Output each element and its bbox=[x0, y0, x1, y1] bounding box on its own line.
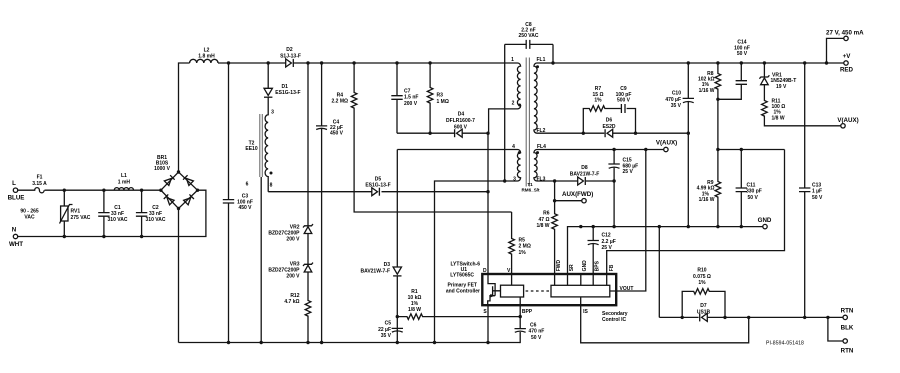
resistor R3 bbox=[427, 61, 449, 133]
svg-text:D6: D6 bbox=[606, 118, 613, 124]
svg-text:470 µF: 470 µF bbox=[665, 97, 681, 103]
svg-text:C7: C7 bbox=[404, 89, 411, 95]
svg-text:R10: R10 bbox=[697, 268, 706, 274]
wire FL1 output rail bbox=[537, 62, 846, 64]
svg-text:C2: C2 bbox=[152, 205, 159, 211]
wire drain line T2 to U1 bbox=[268, 191, 488, 193]
node RTN BLK terminal bbox=[841, 307, 854, 331]
svg-text:FL1: FL1 bbox=[537, 57, 546, 63]
svg-text:SR: SR bbox=[569, 264, 575, 271]
capacitor C11 bbox=[736, 150, 762, 227]
svg-text:L1: L1 bbox=[121, 173, 127, 179]
svg-text:ES2D: ES2D bbox=[602, 124, 615, 130]
svg-text:BZD27C200P: BZD27C200P bbox=[268, 231, 300, 237]
node N input terminal bbox=[9, 227, 23, 248]
capacitor C8 bbox=[503, 22, 555, 183]
svg-text:F1: F1 bbox=[37, 174, 43, 180]
svg-text:DFLR1600-7: DFLR1600-7 bbox=[446, 118, 475, 124]
svg-text:200 V: 200 V bbox=[404, 101, 418, 107]
resistor R1 bbox=[396, 289, 522, 320]
svg-text:1.5 nF: 1.5 nF bbox=[404, 95, 418, 101]
svg-text:200 V: 200 V bbox=[286, 274, 300, 280]
svg-text:1/16 W: 1/16 W bbox=[699, 88, 715, 94]
svg-text:310 VAC: 310 VAC bbox=[108, 217, 128, 223]
svg-text:BLUE: BLUE bbox=[8, 195, 25, 202]
svg-text:2 MΩ: 2 MΩ bbox=[519, 244, 531, 250]
fuse F1 bbox=[18, 174, 47, 193]
svg-text:1/16 W: 1/16 W bbox=[699, 197, 715, 203]
svg-text:3: 3 bbox=[271, 110, 274, 116]
svg-text:3.15 A: 3.15 A bbox=[32, 181, 47, 187]
svg-text:V(AUX): V(AUX) bbox=[656, 140, 677, 147]
transformer T1 primary winding 4-3 bbox=[512, 144, 521, 183]
capacitor C3 bbox=[223, 61, 253, 344]
svg-text:C6: C6 bbox=[530, 322, 537, 328]
svg-text:450 V: 450 V bbox=[238, 205, 252, 211]
svg-text:C1: C1 bbox=[114, 205, 121, 211]
wire secondary GND bus bbox=[568, 227, 766, 274]
svg-text:1/8 W: 1/8 W bbox=[772, 115, 785, 121]
svg-text:D7: D7 bbox=[700, 303, 707, 309]
resistor R12 bbox=[284, 272, 310, 344]
node GND terminal bbox=[763, 224, 767, 228]
svg-text:1/8 W: 1/8 W bbox=[408, 307, 421, 313]
svg-text:C10: C10 bbox=[672, 91, 681, 97]
wire FB pin line bbox=[607, 150, 785, 275]
diode D3 bbox=[360, 150, 401, 276]
varistor RV1 bbox=[60, 189, 91, 239]
capacitor C14 bbox=[718, 40, 750, 100]
wire FL4 V(AUX) line bbox=[537, 149, 664, 151]
capacitor C13 bbox=[799, 61, 823, 319]
svg-text:470 nF: 470 nF bbox=[529, 329, 545, 335]
secondary controller block inside U1 bbox=[551, 285, 610, 297]
svg-text:50 V: 50 V bbox=[531, 335, 542, 341]
wire FL3 line bbox=[537, 180, 614, 182]
diode D7 bbox=[697, 303, 711, 321]
svg-text:1000 V: 1000 V bbox=[154, 166, 171, 172]
node RTN 2 terminal bbox=[826, 316, 854, 355]
resistor R7 and capacitor C9 snubber bbox=[583, 86, 635, 133]
transformer T1 secondary FL1-FL2 bbox=[534, 57, 546, 134]
capacitor C12 BPS column bbox=[588, 227, 616, 274]
svg-text:T1: T1 bbox=[527, 182, 533, 187]
svg-text:RED: RED bbox=[840, 67, 854, 74]
svg-text:50 V: 50 V bbox=[748, 195, 759, 201]
wire D3 to C5 column bbox=[396, 276, 398, 343]
svg-text:50 V: 50 V bbox=[737, 51, 748, 57]
wire RTN line bbox=[659, 316, 843, 318]
resistor R9 bbox=[697, 150, 721, 227]
wire T1 pin4 line bbox=[397, 149, 517, 151]
zener VR1 bbox=[759, 61, 796, 90]
svg-text:C5: C5 bbox=[385, 321, 392, 327]
svg-text:2: 2 bbox=[512, 101, 515, 107]
svg-text:+V: +V bbox=[843, 53, 852, 60]
svg-text:1%: 1% bbox=[411, 301, 419, 307]
svg-text:47 Ω: 47 Ω bbox=[539, 217, 550, 223]
resistor R10 bbox=[681, 268, 727, 319]
svg-text:IS: IS bbox=[583, 309, 588, 315]
svg-text:BAV21W-7-F: BAV21W-7-F bbox=[570, 171, 600, 177]
svg-text:RV1: RV1 bbox=[71, 209, 81, 215]
capacitor C7 bbox=[391, 61, 418, 133]
wire drain column pin2 to U1 bbox=[487, 133, 489, 274]
resistor R6 bbox=[536, 201, 557, 274]
node L input terminal bbox=[8, 180, 39, 221]
svg-text:US1B: US1B bbox=[697, 309, 711, 315]
svg-text:BPS: BPS bbox=[595, 260, 601, 271]
svg-text:35 V: 35 V bbox=[671, 103, 682, 109]
svg-text:L: L bbox=[12, 180, 16, 187]
diode D4 bbox=[446, 112, 475, 138]
svg-text:500 V: 500 V bbox=[617, 98, 631, 104]
capacitor C4 bbox=[316, 61, 344, 344]
svg-text:90 - 265: 90 - 265 bbox=[20, 209, 39, 215]
capacitor C10 bbox=[665, 61, 694, 228]
svg-text:Primary FET: Primary FET bbox=[448, 282, 477, 288]
svg-text:BPP: BPP bbox=[522, 309, 533, 315]
svg-text:BZD27C200P: BZD27C200P bbox=[268, 268, 300, 274]
node AUX(FWD) terminal bbox=[553, 181, 593, 203]
transformer T1 core bbox=[526, 58, 529, 187]
svg-text:ES1G-13-F: ES1G-13-F bbox=[365, 183, 390, 189]
capacitor C15 bbox=[608, 148, 638, 229]
resistor R5 bbox=[509, 212, 531, 274]
svg-text:R6: R6 bbox=[543, 211, 550, 217]
node V(AUX) right terminal bbox=[841, 124, 845, 128]
wire dashed link inside U1 bbox=[526, 290, 550, 292]
zener VR3 bbox=[268, 234, 313, 280]
svg-text:VAC: VAC bbox=[24, 215, 35, 221]
node V(AUX) mid terminal bbox=[664, 147, 668, 151]
svg-text:1 µF: 1 µF bbox=[812, 189, 822, 195]
svg-text:R12: R12 bbox=[290, 293, 299, 299]
wire L line bbox=[45, 189, 161, 191]
svg-text:35 V: 35 V bbox=[381, 333, 392, 339]
svg-text:50 V: 50 V bbox=[812, 195, 823, 201]
wire bridge minus to bottom bus bbox=[178, 209, 180, 343]
svg-text:R3: R3 bbox=[437, 93, 444, 99]
svg-text:S1J-13-F: S1J-13-F bbox=[280, 53, 301, 59]
transformer T1 primary winding 1-2 bbox=[489, 57, 521, 133]
bridge rectifier BR1 bbox=[154, 155, 199, 210]
diode D1 bbox=[264, 61, 301, 97]
svg-text:25 V: 25 V bbox=[623, 169, 634, 175]
wire VOUT to V(AUX) node bbox=[610, 150, 646, 292]
wire bottom primary bus bbox=[179, 342, 521, 344]
wire S pin to bus bbox=[487, 305, 489, 342]
transformer T2 bbox=[245, 97, 274, 344]
wire bridge plus to rail bbox=[179, 63, 190, 172]
svg-text:C13: C13 bbox=[812, 183, 821, 189]
svg-text:FWD: FWD bbox=[556, 260, 562, 272]
inductor L1 bbox=[114, 173, 133, 190]
zener VR2 bbox=[268, 61, 313, 242]
svg-text:310 VAC: 310 VAC bbox=[146, 217, 166, 223]
svg-text:1%: 1% bbox=[594, 98, 602, 104]
resistor R11 bbox=[762, 85, 841, 126]
node 27V tap terminal bbox=[825, 30, 864, 65]
svg-text:RM6_S/t: RM6_S/t bbox=[521, 188, 540, 193]
svg-text:330 pF: 330 pF bbox=[746, 189, 762, 195]
svg-text:VR3: VR3 bbox=[290, 262, 300, 268]
svg-text:D1: D1 bbox=[282, 84, 289, 90]
svg-text:S: S bbox=[483, 309, 487, 315]
resistor R8 bbox=[698, 61, 721, 149]
svg-text:GND: GND bbox=[758, 217, 772, 224]
svg-text:GND: GND bbox=[582, 260, 588, 272]
svg-text:R4: R4 bbox=[337, 93, 344, 99]
svg-text:N: N bbox=[12, 227, 17, 234]
svg-text:19 V: 19 V bbox=[776, 84, 787, 90]
svg-text:1 MΩ: 1 MΩ bbox=[437, 99, 449, 105]
op-amp U1 LYTSwitch-6 IC box bbox=[446, 260, 634, 323]
svg-text:8: 8 bbox=[270, 183, 273, 189]
svg-text:RTN: RTN bbox=[841, 348, 854, 355]
svg-text:200 V: 200 V bbox=[286, 237, 300, 243]
wire N line bbox=[18, 190, 206, 236]
svg-text:22 µF: 22 µF bbox=[378, 327, 391, 333]
inductor L2 bbox=[190, 48, 218, 63]
wire T1 pin3 line bbox=[435, 181, 518, 343]
svg-text:10 kΩ: 10 kΩ bbox=[408, 295, 422, 301]
svg-text:25 V: 25 V bbox=[602, 245, 613, 251]
node +V terminal bbox=[840, 53, 854, 74]
svg-text:C12: C12 bbox=[602, 233, 611, 239]
svg-text:BAV21W-7-F: BAV21W-7-F bbox=[360, 268, 390, 274]
capacitor C5 bbox=[378, 321, 403, 339]
diode D5 bbox=[365, 176, 390, 195]
diode D6 bbox=[602, 118, 615, 138]
svg-text:D4: D4 bbox=[458, 112, 465, 118]
resistor R4 bbox=[331, 61, 511, 212]
svg-text:33 nF: 33 nF bbox=[111, 211, 124, 217]
svg-text:BLK: BLK bbox=[841, 325, 854, 332]
svg-text:R5: R5 bbox=[519, 238, 526, 244]
capacitor C6 BPP column bbox=[515, 305, 545, 342]
svg-text:250 VAC: 250 VAC bbox=[519, 33, 539, 39]
wire clamp line C7 R3 to D4 bbox=[397, 132, 488, 134]
svg-text:ES1G-13-F: ES1G-13-F bbox=[275, 90, 300, 96]
wire FB divider node line bbox=[718, 149, 785, 151]
svg-text:LYT6065C: LYT6065C bbox=[450, 273, 474, 279]
svg-text:EE10: EE10 bbox=[245, 146, 257, 152]
transistor Q primary FET inside U1 bbox=[488, 274, 495, 305]
svg-text:and Controller: and Controller bbox=[446, 288, 480, 294]
svg-text:6: 6 bbox=[246, 182, 249, 188]
svg-text:27 V, 450 mA: 27 V, 450 mA bbox=[826, 30, 864, 37]
svg-text:1%: 1% bbox=[698, 280, 706, 286]
wire GND bus to RTN column bbox=[658, 227, 660, 318]
svg-text:1 mH: 1 mH bbox=[118, 179, 131, 185]
svg-text:275 VAC: 275 VAC bbox=[71, 215, 91, 221]
wire FL2 line bbox=[537, 132, 688, 134]
capacitor C1 bbox=[98, 189, 128, 239]
svg-text:33 nF: 33 nF bbox=[149, 211, 162, 217]
svg-text:0.075 Ω: 0.075 Ω bbox=[693, 274, 711, 280]
svg-text:1: 1 bbox=[511, 57, 514, 63]
wire IS pin route bbox=[581, 305, 749, 343]
svg-text:D8: D8 bbox=[581, 165, 588, 171]
svg-text:VR2: VR2 bbox=[290, 225, 300, 231]
diode D2 bbox=[280, 47, 301, 67]
capacitor C2 bbox=[136, 189, 166, 239]
svg-text:Secondary: Secondary bbox=[602, 311, 628, 317]
diode D8 bbox=[570, 165, 600, 185]
svg-text:1/8 W: 1/8 W bbox=[536, 223, 549, 229]
svg-text:2.2 µF: 2.2 µF bbox=[602, 239, 616, 245]
svg-text:AUX(FWD): AUX(FWD) bbox=[562, 191, 593, 198]
svg-text:D: D bbox=[483, 268, 487, 274]
svg-text:R1: R1 bbox=[411, 289, 418, 295]
transformer T1 secondary FL4-FL3 bbox=[534, 144, 546, 183]
svg-text:V(AUX): V(AUX) bbox=[837, 117, 858, 124]
svg-text:RTN: RTN bbox=[841, 307, 854, 314]
svg-text:D2: D2 bbox=[286, 47, 293, 53]
svg-text:WHT: WHT bbox=[9, 241, 23, 248]
svg-text:2.2 MΩ: 2.2 MΩ bbox=[331, 99, 348, 105]
svg-text:C11: C11 bbox=[747, 183, 756, 189]
svg-text:1%: 1% bbox=[519, 250, 527, 256]
wire top rail bbox=[218, 62, 518, 64]
svg-text:450 V: 450 V bbox=[330, 131, 344, 137]
svg-text:FB: FB bbox=[609, 264, 615, 271]
svg-text:Control IC: Control IC bbox=[602, 317, 627, 323]
gate driver block inside U1 bbox=[501, 285, 524, 297]
svg-text:PI-8594-051418: PI-8594-051418 bbox=[766, 341, 804, 347]
svg-text:4.7 kΩ: 4.7 kΩ bbox=[284, 299, 299, 305]
svg-text:D5: D5 bbox=[375, 176, 382, 182]
svg-text:D3: D3 bbox=[384, 262, 391, 268]
